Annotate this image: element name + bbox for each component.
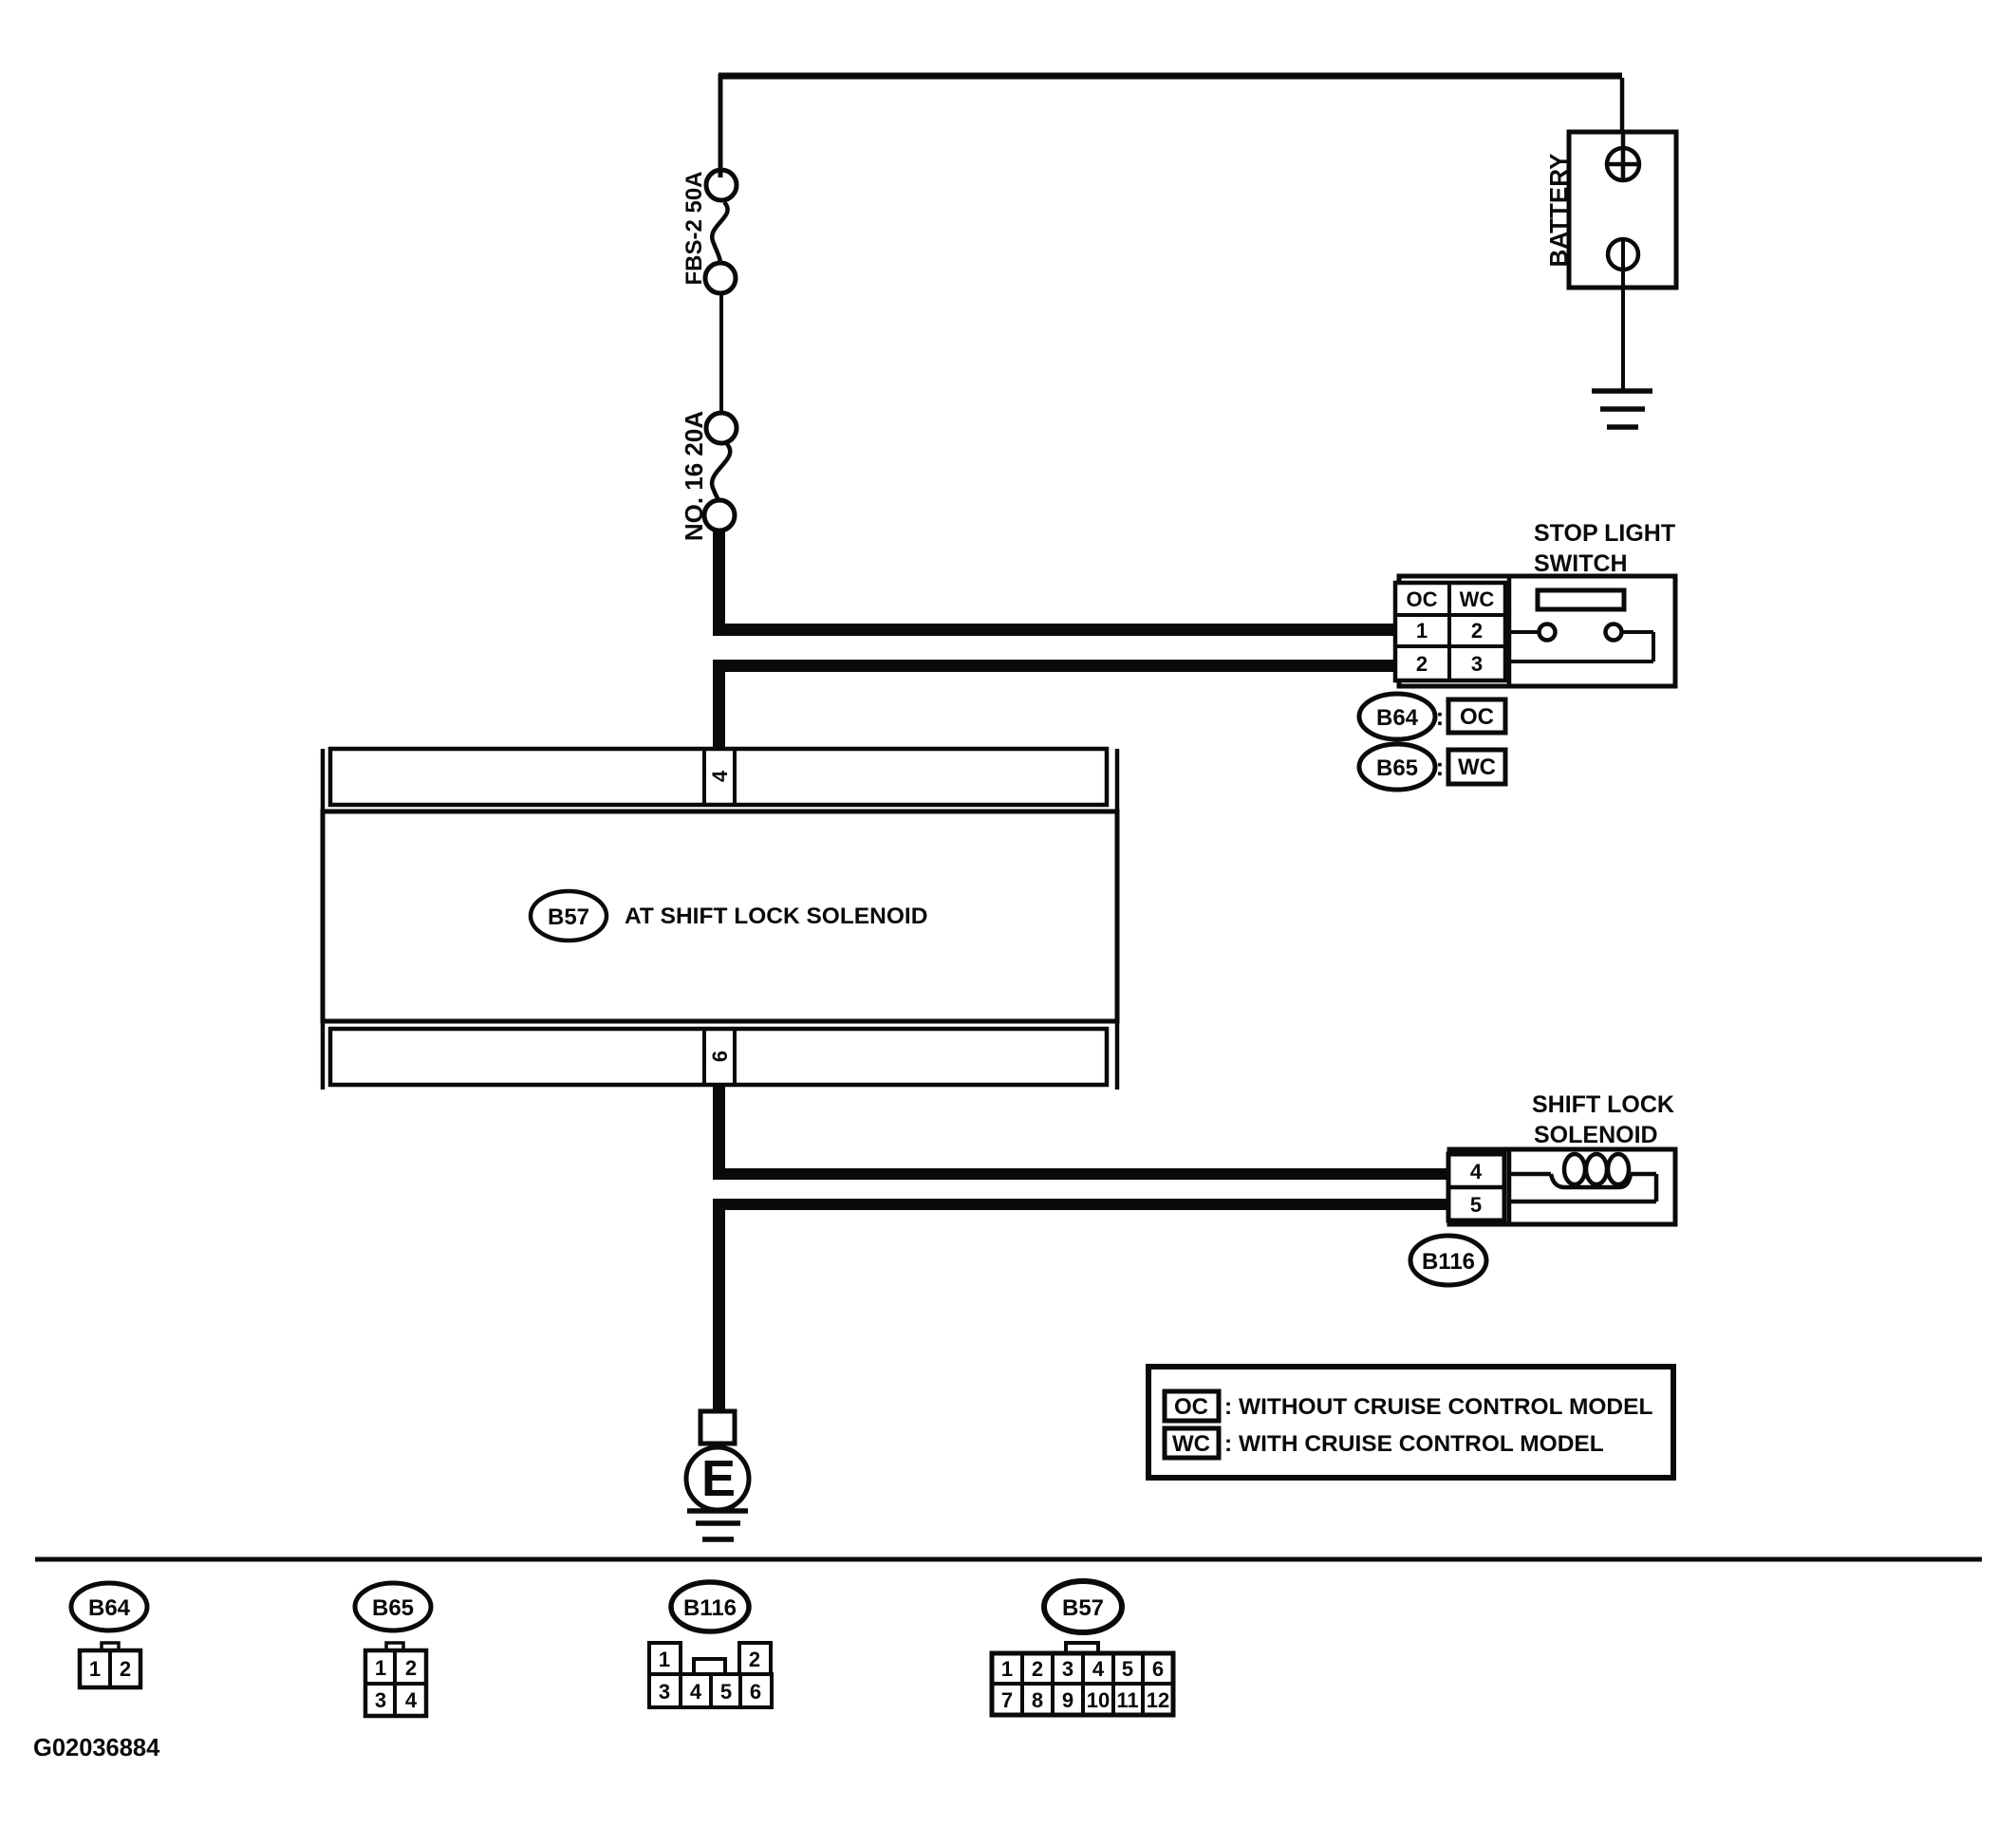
svg-text:1: 1	[659, 1648, 670, 1671]
svg-text:: WITH CRUISE CONTROL MODEL: : WITH CRUISE CONTROL MODEL	[1224, 1431, 1604, 1457]
svg-text::: :	[1436, 753, 1445, 781]
svg-text:2: 2	[120, 1657, 131, 1681]
svg-text:12: 12	[1147, 1688, 1169, 1712]
svg-text:1: 1	[89, 1657, 101, 1681]
svg-text:1: 1	[1001, 1657, 1013, 1681]
svg-text:5: 5	[1122, 1657, 1133, 1681]
svg-text:10: 10	[1087, 1688, 1110, 1712]
svg-text:1: 1	[1416, 619, 1428, 643]
svg-text:SHIFT LOCK: SHIFT LOCK	[1532, 1091, 1674, 1118]
svg-text:SWITCH: SWITCH	[1534, 550, 1628, 577]
svg-text:5: 5	[1470, 1193, 1482, 1217]
svg-text:3: 3	[1062, 1657, 1073, 1681]
svg-text:2: 2	[1032, 1657, 1043, 1681]
svg-text::: :	[1436, 702, 1445, 731]
svg-text:FBS-2 50A: FBS-2 50A	[681, 171, 707, 285]
svg-text:9: 9	[1062, 1688, 1073, 1712]
svg-text:WC: WC	[1172, 1431, 1210, 1457]
svg-text:7: 7	[1001, 1688, 1013, 1712]
svg-text:B65: B65	[372, 1595, 414, 1621]
svg-text:2: 2	[749, 1648, 760, 1671]
svg-text:5: 5	[720, 1680, 732, 1704]
svg-text:3: 3	[659, 1680, 670, 1704]
svg-text:SOLENOID: SOLENOID	[1534, 1122, 1658, 1148]
svg-text:E: E	[701, 1450, 736, 1507]
svg-text:4: 4	[1092, 1657, 1105, 1681]
svg-text:: WITHOUT CRUISE CONTROL MODEL: : WITHOUT CRUISE CONTROL MODEL	[1224, 1394, 1652, 1420]
svg-text:B64: B64	[88, 1595, 131, 1621]
svg-text:6: 6	[1152, 1657, 1164, 1681]
svg-text:OC: OC	[1174, 1394, 1208, 1420]
svg-text:WC: WC	[1458, 755, 1496, 780]
svg-text:STOP LIGHT: STOP LIGHT	[1534, 520, 1675, 547]
svg-text:OC: OC	[1407, 587, 1438, 611]
svg-text:BATTERY: BATTERY	[1544, 154, 1573, 268]
svg-text:4: 4	[405, 1688, 418, 1712]
svg-text:3: 3	[1471, 652, 1483, 676]
svg-text:3: 3	[375, 1688, 386, 1712]
svg-text:B65: B65	[1376, 755, 1418, 781]
svg-text:6: 6	[750, 1680, 761, 1704]
svg-text:1: 1	[375, 1656, 386, 1680]
svg-text:6: 6	[708, 1051, 732, 1062]
svg-text:B116: B116	[1422, 1249, 1475, 1275]
svg-text:B57: B57	[548, 904, 589, 930]
svg-text:G02036884: G02036884	[33, 1735, 160, 1761]
svg-text:B116: B116	[683, 1595, 737, 1621]
svg-text:11: 11	[1116, 1688, 1138, 1712]
svg-text:4: 4	[690, 1680, 702, 1704]
svg-text:8: 8	[1032, 1688, 1043, 1712]
svg-text:B57: B57	[1062, 1595, 1104, 1621]
svg-text:4: 4	[708, 770, 732, 782]
svg-text:4: 4	[1470, 1160, 1483, 1183]
svg-text:2: 2	[1416, 652, 1428, 676]
svg-text:OC: OC	[1460, 704, 1494, 730]
svg-text:AT SHIFT LOCK SOLENOID: AT SHIFT LOCK SOLENOID	[625, 904, 927, 929]
svg-text:WC: WC	[1460, 587, 1495, 611]
svg-text:NO. 16 20A: NO. 16 20A	[680, 411, 708, 542]
svg-text:2: 2	[1471, 619, 1483, 643]
svg-text:2: 2	[405, 1656, 417, 1680]
svg-text:B64: B64	[1376, 705, 1419, 731]
